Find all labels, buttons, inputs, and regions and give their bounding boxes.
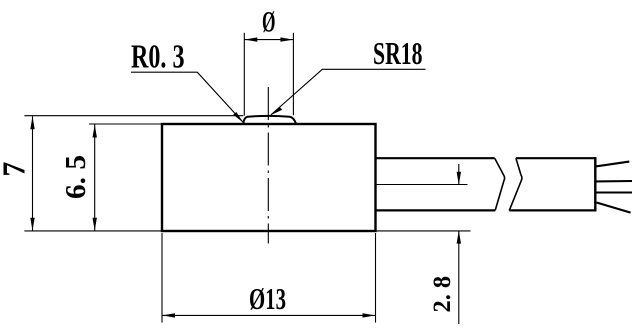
dimension line 2.8 upper segment (458, 164, 460, 185)
svg-text:6. 5: 6. 5 (61, 155, 92, 199)
arrowhead of R0.3 leader (233, 112, 243, 123)
arrow left of Ø13 dim (162, 313, 175, 317)
svg-text:R0. 3: R0. 3 (131, 38, 185, 75)
arrow right of Ø13 dim (363, 313, 376, 317)
arrow right of Ø dim (280, 37, 293, 41)
wire: cable centerline extension (for 2.8 dim) (376, 184, 468, 186)
wire: extension line at dome-top level (for 7 dim) (24, 115, 243, 117)
body outline (13mm x 6.5mm block) (162, 124, 376, 231)
arrow top of 6.5 dim (93, 125, 97, 138)
arrowhead of SR18 leader (270, 107, 282, 116)
dimension line 2.8 lower segment (458, 231, 460, 324)
wire: Ø13 left extension line (161, 233, 163, 323)
vertical centerline (dash-dot) (267, 87, 269, 244)
arrow bottom of 6.5 dim (93, 218, 97, 231)
cable top line (right piece) (516, 157, 595, 159)
arrow left of Ø dim (244, 37, 257, 41)
cable bottom line (left piece) (376, 209, 496, 211)
wire: extension line at body-top level (for 6.5 dim) (89, 123, 162, 125)
wire: body bottom extension right (for 2.8 dim) (376, 230, 471, 232)
wire: bottom extension line (left) (24, 230, 162, 232)
wire lead 2 (597, 180, 633, 182)
wire: Ø13 right extension line (375, 233, 377, 323)
wire: extension line right of Ø dim (292, 33, 294, 115)
arrow bottom of 7 dim (30, 218, 34, 231)
cable break chevron (left piece) (495, 158, 505, 210)
dimension line Ø13 (bottom) (162, 314, 376, 316)
wire lead 3 (597, 191, 633, 193)
leader for R0.3 (131, 72, 243, 121)
wire lead 1 (top) (597, 162, 630, 167)
cable bottom line (right piece) (509, 209, 595, 211)
spherical dome SR18 on top of body (243, 116, 296, 124)
dimension line 6.5 (vertical) (94, 125, 96, 231)
svg-text:Ø: Ø (262, 5, 276, 38)
wire: extension line left of Ø dim (243, 33, 245, 116)
arrow up at bottom extension (2.8 dim) (457, 231, 461, 244)
cable top line (left piece) (376, 157, 495, 159)
arrow down at cable centerline (2.8 dim) (457, 172, 461, 185)
svg-text:7: 7 (0, 162, 31, 177)
cable right end edge (594, 157, 596, 211)
svg-text:2. 8: 2. 8 (429, 276, 456, 313)
svg-text:Ø13: Ø13 (249, 281, 286, 316)
arrow top of 7 dim (30, 116, 34, 129)
cable break chevron (right piece) (509, 158, 522, 210)
leader for SR18 (271, 69, 426, 115)
svg-text:SR18: SR18 (373, 35, 423, 71)
dimension line Ø (top) (244, 39, 293, 41)
wire lead 4 (bottom) (597, 203, 631, 213)
dimension line 7 (far left vertical) (32, 116, 34, 231)
